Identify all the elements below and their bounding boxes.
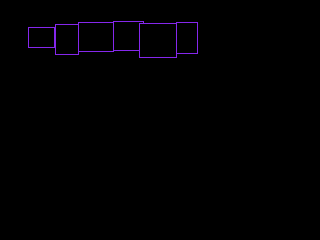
box 1	[29, 28, 55, 48]
box 5	[140, 24, 177, 58]
box 3	[79, 23, 114, 52]
box 6	[177, 23, 198, 54]
box 4	[114, 22, 144, 51]
box 2	[56, 25, 79, 55]
